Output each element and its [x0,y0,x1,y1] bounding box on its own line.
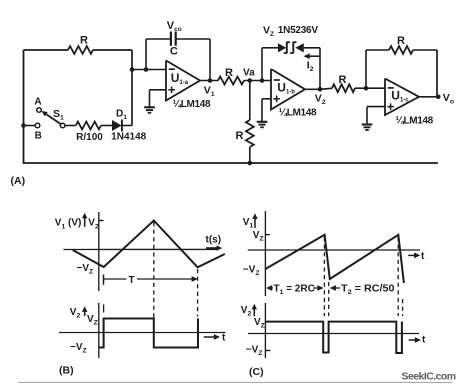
panel B V2 axis up-arrow [84,310,86,317]
op-amp U1-b [271,69,305,110]
capacitor C (integrator feedback) [170,32,172,46]
dashed line at second peak [397,237,399,316]
label minus input U1-b [274,79,280,81]
wire: top-left segment to input resistor R [24,49,69,51]
panel C V2 t arrow [409,339,418,341]
svg-text:R/100: R/100 [76,132,103,143]
wire: left feedback rail [23,50,25,163]
label plus input U1-b [273,98,280,100]
svg-text:R: R [225,67,233,79]
panel C V1 vertical axis [264,211,266,296]
wire: U1-c feedback right segment [413,49,437,51]
switch S1 lever with arrow toward A [46,114,60,124]
switch contact A (open circle) [37,108,42,113]
svg-text:¼LM148: ¼LM148 [396,116,434,127]
wire: switch pole to R/100 [65,125,76,127]
panel B V2 time axis [59,332,226,334]
node: U1-a output V1 [208,78,213,83]
dash below first trough [103,305,105,313]
wire: U1-a non-inverting input to ground [150,89,167,91]
ground (U1-b +input) [257,121,268,123]
panel B axis up-arrow [84,216,86,227]
svg-text:t(s): t(s) [206,235,222,246]
zener diode VZ right (1N5236V) [295,43,304,52]
V2 square waveform [99,319,198,348]
svg-text:R: R [236,130,244,142]
svg-text:(C): (C) [249,366,264,378]
dashed line after first fall [328,282,330,316]
wire: Va down to shunt resistor R [249,81,251,121]
svg-text:V1 (V): V1 (V) [55,218,82,231]
panel C VZ tick [265,234,269,236]
svg-text:C: C [170,46,178,58]
wire: U1-c non-inverting input to ground [367,106,385,108]
V2 pulse waveform [265,322,402,353]
node: feedback tap on inverting input [144,67,149,72]
svg-text:R: R [339,74,347,86]
node: shunt R at bottom rail [248,161,253,166]
panel B V2 t arrow [204,336,217,338]
panel C V2 vertical axis [264,303,266,358]
switch S1 pole (open circle) [60,123,65,128]
wire: R to corner and down to U1-a inverting node [93,49,132,51]
label plus input U1-c [387,106,394,108]
wire: U1-b non-inverting input to ground [262,98,271,100]
wire: zener feedback right segment down to V2 [304,47,320,49]
V1 triangle waveform [73,221,225,268]
resistor R/100 [76,122,101,130]
wire: R/100 to diode D1 [101,125,112,127]
wire: capacitor feedback right segment down to V1 [176,38,210,40]
svg-text:R: R [80,35,88,47]
panel C V2 axis up-arrow [253,307,255,316]
panel C V1 time axis [248,249,420,251]
node: output Vo [436,95,441,100]
wire: rail to switch contact B [24,125,36,127]
wire: V1 to resistor R [200,80,218,82]
panel B VZ tick [99,220,104,222]
wire: U1-c output to Vo rail [419,96,437,98]
diode D1 1N4148 [112,120,122,131]
svg-text:SeekIC.com: SeekIC.com [402,370,456,382]
svg-text:(A): (A) [11,175,26,187]
svg-text:Va: Va [243,68,255,79]
resistor R (V1 to Va) [218,77,244,85]
wire: shunt R to bottom rail [249,147,251,163]
svg-text:1N5236V: 1N5236V [278,25,319,36]
wire: diode to inverting-input vertical [122,125,132,127]
scan edge line at bottom [18,381,452,383]
svg-text:(B): (B) [59,365,74,377]
wire: V2 to resistor R [305,88,320,90]
V1 sawtooth waveform [265,235,404,283]
label minus input U1-c [388,87,394,89]
arrow I2 (zener current) [307,55,320,57]
node: U1-a inverting input junction [130,67,135,72]
node Va [248,78,253,83]
wire: zener feedback left segment [261,48,263,81]
period T left boundary [103,274,105,284]
wire: U1-c feedback left segment [365,50,367,88]
resistor R (Va to bottom rail) [246,120,254,147]
dashed line at triangle peak [153,222,155,318]
ground (U1-a +input) [144,106,155,108]
svg-text:T: T [128,275,134,286]
svg-text:¼LM148: ¼LM148 [279,108,317,119]
op-amp U1-c [385,79,419,116]
label minus input U1-a [169,68,175,70]
resistor R (U1-c feedback) [389,46,413,54]
period T dimension arrow [104,278,127,280]
svg-text:1N4148: 1N4148 [111,132,146,143]
wire: R to U1-c inverting input [355,87,385,89]
node: U1-c inverting input junction [364,86,369,91]
zener diode VZ left (1N5236V) [278,43,286,52]
switch contact B (open circle) [35,123,40,128]
label plus input U1-a [168,89,175,91]
T1 dimension arrows [266,285,272,291]
panel B V2 vertical axis [98,303,100,358]
panel C V1 axis up-arrow [254,217,256,229]
panel B V1 vertical axis [98,212,100,291]
node: U1-b inverting input junction [260,78,265,83]
wire: inverting input to U1-a [132,69,166,71]
resistor R (input, top left) [68,46,93,54]
svg-text:A: A [34,97,41,108]
panel C V1 t arrow [408,254,417,256]
T2 dimension arrow [330,285,336,291]
op-amp U1-a [166,61,200,101]
svg-text:¼LM148: ¼LM148 [173,99,211,110]
node: junction on left rail at switch branch [21,123,26,128]
panel B V1 time axis [63,248,218,250]
dashed line at first peak [323,237,325,316]
ground (U1-c +input) [362,123,373,125]
wire: R to U1-b inverting input [244,80,271,82]
dashed line at second trough [197,269,199,317]
svg-text:B: B [35,131,42,142]
dashed line after second fall [402,299,404,316]
wire: capacitor feedback left segment [145,39,147,70]
wire: bottom feedback rail from Vo back to input [23,162,438,164]
svg-text:R: R [397,35,405,47]
resistor R (V2 to U1-c) [332,84,355,92]
panel C V2 time axis [248,333,419,335]
node: U1-b output V2 [318,87,323,92]
panel C -VZ tick [265,350,270,352]
